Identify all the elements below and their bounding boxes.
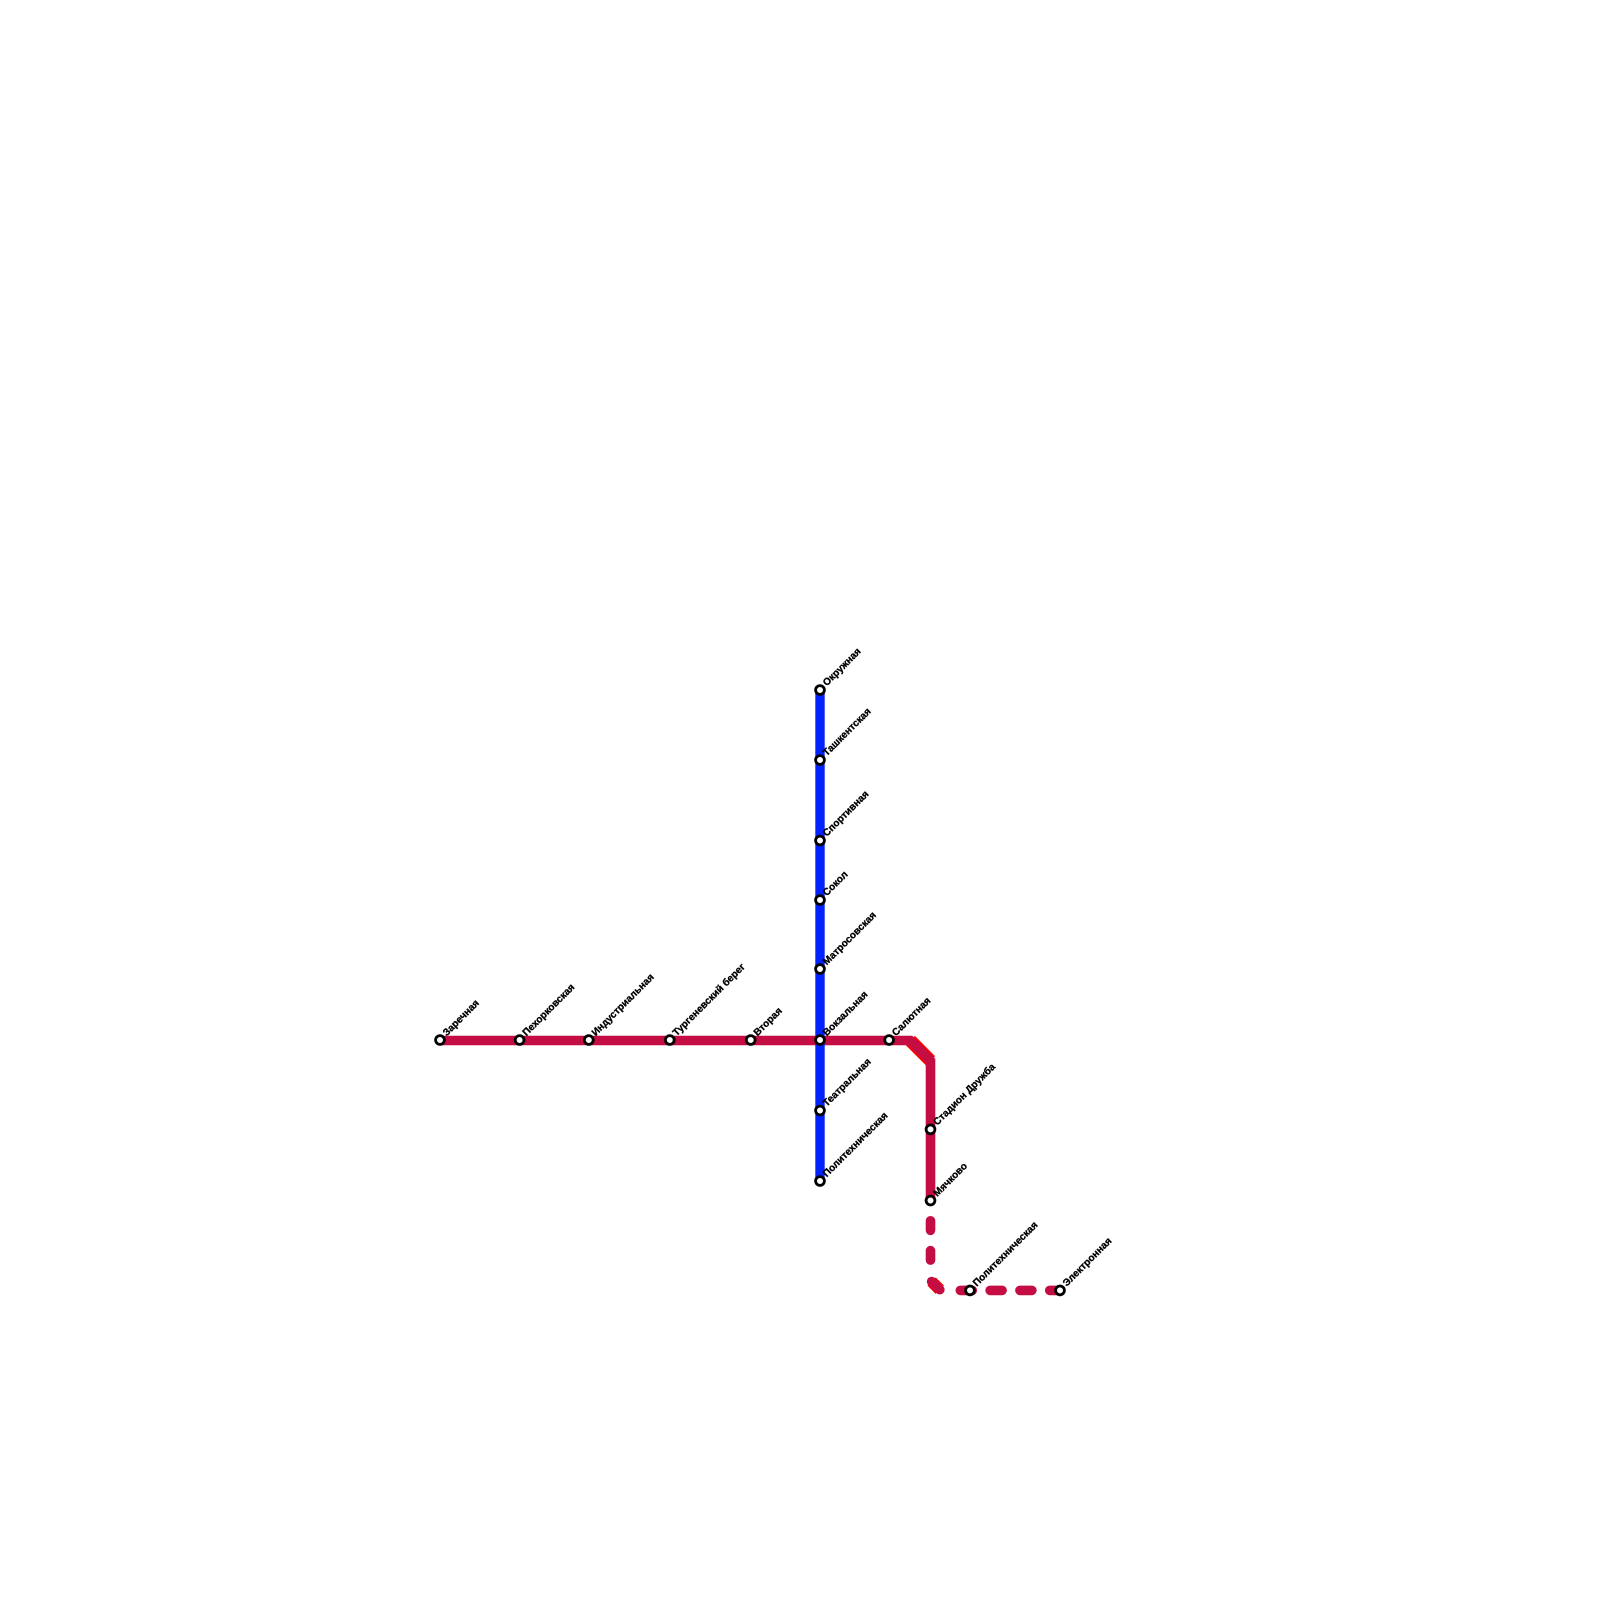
station Мячково bbox=[926, 1161, 970, 1205]
red line dashed horizontal bbox=[946, 1286, 1060, 1296]
station Тургеневский берег bbox=[665, 961, 747, 1044]
station Сокол bbox=[816, 869, 851, 904]
station Электронная bbox=[1056, 1236, 1115, 1295]
station Театральная bbox=[816, 1057, 874, 1115]
station Стадион Дружба bbox=[926, 1061, 998, 1134]
red line dashed vertical bbox=[926, 1206, 936, 1269]
red underlay diagonal at dashed corner bbox=[932, 1282, 940, 1290]
station Политехническая (blue) bbox=[816, 1110, 891, 1185]
red line dashed corner dash bbox=[932, 1282, 940, 1290]
station Вокзальная (transfer) bbox=[816, 989, 871, 1044]
station Заречная bbox=[436, 998, 482, 1045]
red line solid bbox=[440, 1041, 931, 1201]
station Матросовская bbox=[816, 910, 879, 974]
blue line bbox=[815, 690, 824, 1181]
station Ташкентская bbox=[816, 706, 874, 764]
station Спортивная bbox=[816, 789, 872, 845]
station Пехорковская bbox=[515, 982, 577, 1044]
station Политехническая (red dashed) bbox=[966, 1220, 1041, 1295]
station Индустриальная bbox=[584, 972, 656, 1045]
station Вторая bbox=[746, 1006, 785, 1045]
station Салютная bbox=[885, 995, 934, 1044]
station Окружная bbox=[816, 646, 864, 694]
red underlay diagonal at solid bend bbox=[910, 1041, 930, 1061]
